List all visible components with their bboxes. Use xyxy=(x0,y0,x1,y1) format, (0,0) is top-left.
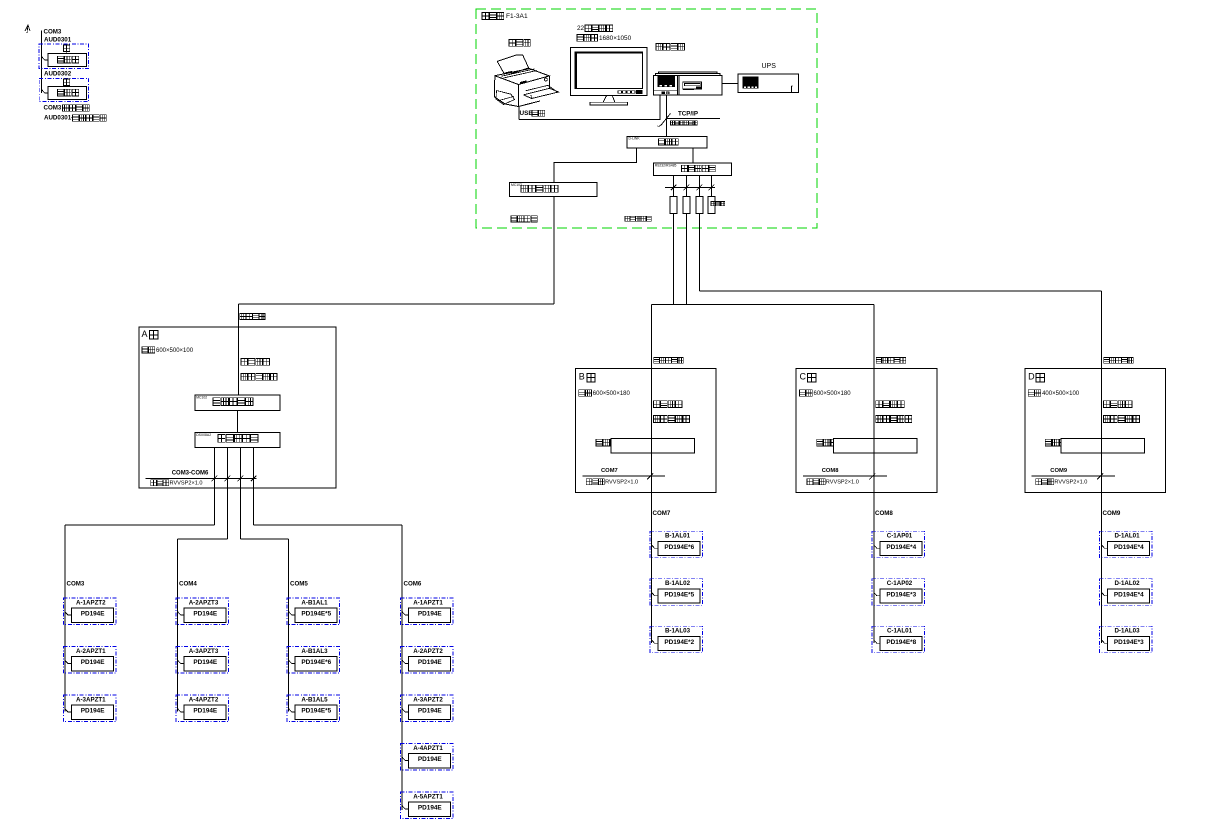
meter D-1AL01 (dash-dot boundary) xyxy=(1100,531,1153,558)
wire host to UPS xyxy=(722,82,738,84)
junction slash tick xyxy=(658,114,671,127)
legend bus wire xyxy=(41,31,43,94)
meter A-4APZT1 stub wire xyxy=(402,757,408,760)
meter A-2APZT1 stub wire xyxy=(65,660,71,663)
meter A-3APZT3 label xyxy=(189,648,219,655)
svg-text:PD194E*2: PD194E*2 xyxy=(664,639,694,646)
wire host to hub xyxy=(666,95,668,136)
building B boundary xyxy=(576,369,717,493)
label 超五类双绞线 xyxy=(671,121,698,125)
meter A-2APZT1 (dash-dot boundary) xyxy=(63,647,116,674)
svg-text:D-LINK: D-LINK xyxy=(629,137,641,141)
legend meter 1 box 电能表 xyxy=(48,53,86,66)
meter A-2APZT3 label xyxy=(189,599,219,606)
legend meter 1 tag glyph + leader xyxy=(64,45,70,53)
svg-text:COM9: COM9 xyxy=(1050,468,1068,474)
svg-text:1680×1050: 1680×1050 xyxy=(599,35,632,42)
svg-text:D-1AL02: D-1AL02 xyxy=(1114,580,1140,587)
svg-text:PD194E*5: PD194E*5 xyxy=(664,591,694,598)
svg-text:A-2APZT2: A-2APZT2 xyxy=(413,648,443,655)
meter A-2APZT2 box PD194E xyxy=(409,657,451,671)
comm manager output wires xyxy=(214,448,253,539)
wire USB horizontal xyxy=(519,95,660,119)
legend meter 2 tag glyph + leader xyxy=(64,79,70,87)
meter A-1APZT2 label xyxy=(76,599,106,606)
north tick mark xyxy=(25,25,30,33)
svg-text:COM4: COM4 xyxy=(179,580,197,587)
label C座 xyxy=(800,372,816,382)
label 分辨率1680x1050 xyxy=(577,35,632,42)
B com line xyxy=(582,473,665,479)
converter output wires xyxy=(674,176,712,197)
meter D-1AL02 label xyxy=(1114,580,1140,587)
label 打印机 xyxy=(509,40,530,47)
svg-text:AUD0302: AUD0302 xyxy=(44,70,72,77)
svg-text:RVVSP2×1.0: RVVSP2×1.0 xyxy=(1054,480,1087,486)
label COM8 (inside C) xyxy=(822,468,840,474)
meter B-1AL01 box PD194E*6 xyxy=(658,541,700,555)
wire branch to COM5 xyxy=(240,539,288,712)
meter A-1APZT2 stub wire xyxy=(65,612,71,615)
svg-text:COM3: COM3 xyxy=(44,105,62,112)
meter D-1AL03 label xyxy=(1114,628,1140,635)
label 信号线RVVSP2x1.0 (A) xyxy=(151,480,203,487)
meter C-1AP01 stub wire xyxy=(874,545,880,548)
printer icon xyxy=(495,55,559,107)
label 信号线RVVSP2x1.0 (C) xyxy=(807,479,859,486)
label COM3-COM6 xyxy=(172,471,209,477)
svg-text:PD194E: PD194E xyxy=(418,611,443,618)
svg-text:COM9: COM9 xyxy=(1103,510,1121,517)
svg-text:PD194E*4: PD194E*4 xyxy=(886,544,916,551)
wire hub to converter xyxy=(692,148,694,163)
meter A-B1AL1 box PD194E*5 xyxy=(295,608,337,622)
svg-text:C-1AL01: C-1AL01 xyxy=(887,628,913,635)
arrester 3 xyxy=(696,196,703,213)
svg-text:A-2APZT1: A-2APZT1 xyxy=(76,648,106,655)
meter A-3APZT3 (dash-dot boundary) xyxy=(176,647,229,674)
svg-text:PD194E: PD194E xyxy=(418,805,443,812)
UPS icon xyxy=(738,74,798,92)
label 规格600x500x100 xyxy=(142,347,194,354)
svg-text:COM8: COM8 xyxy=(875,510,893,517)
meter B-1AL01 label xyxy=(665,533,691,540)
label UPS xyxy=(762,63,777,70)
meter D-1AL03 stub wire xyxy=(1102,640,1108,643)
building D boundary xyxy=(1025,369,1166,493)
meter A-3APZT1 stub wire xyxy=(65,709,71,712)
svg-text:COM3: COM3 xyxy=(67,580,85,587)
meter B-1AL02 box PD194E*5 xyxy=(658,589,700,603)
svg-text:600×500×100: 600×500×100 xyxy=(156,348,194,354)
svg-text:USB: USB xyxy=(520,110,534,117)
building C boundary xyxy=(796,369,937,493)
meter A-4APZT1 (dash-dot boundary) xyxy=(401,744,454,771)
meter A-B1AL3 stub wire xyxy=(289,660,295,663)
label 串口通讯线 xyxy=(625,216,651,221)
svg-text:COM5: COM5 xyxy=(290,580,308,587)
legend label COM3 xyxy=(44,28,62,35)
legend note line 1: COM3 串口编号 xyxy=(44,105,90,112)
label 信号线RVVSP2x1.0 (B) xyxy=(586,479,638,486)
svg-text:COM3-COM6: COM3-COM6 xyxy=(172,471,209,477)
meter C-1AP01 (dash-dot boundary) xyxy=(872,531,925,558)
svg-text:PD194E*8: PD194E*8 xyxy=(886,639,916,646)
svg-text:C-1AP02: C-1AP02 xyxy=(887,580,913,587)
meter A-B1AL5 (dash-dot boundary) xyxy=(287,695,340,722)
meter C-1AL01 (dash-dot boundary) xyxy=(872,626,925,653)
label 避雷器 xyxy=(711,202,725,206)
legend meter 2 box 电能表 xyxy=(48,86,86,99)
wire C trunk xyxy=(873,369,875,644)
C com line xyxy=(803,473,887,479)
svg-text:AUD0301-: AUD0301- xyxy=(44,115,73,122)
legend meter cell 2 (dash-dot boundary) xyxy=(39,78,88,101)
meter A-1APZT1 (dash-dot boundary) xyxy=(401,598,454,625)
wire branch to COM6 xyxy=(254,525,403,810)
optical terminal box 光端盒 (B) xyxy=(596,439,695,453)
meter A-3APZT1 box PD194E xyxy=(71,705,113,719)
meter D-1AL03 (dash-dot boundary) xyxy=(1100,626,1153,653)
wire TCP/IP branch xyxy=(667,117,721,119)
svg-text:PD194E: PD194E xyxy=(193,708,218,715)
meter A-1APZT1 box PD194E xyxy=(409,608,451,622)
label 单模光缆 (room) xyxy=(511,216,537,222)
svg-text:RVVSP2×1.0: RVVSP2×1.0 xyxy=(170,481,203,487)
meter D-1AL01 stub wire xyxy=(1102,545,1108,548)
meter C-1AP02 box PD194E*3 xyxy=(880,589,922,603)
meter D-1AL02 box PD194E*4 xyxy=(1108,589,1150,603)
meter B-1AL02 (dash-dot boundary) xyxy=(650,579,703,606)
svg-text:A-B1AL1: A-B1AL1 xyxy=(301,599,328,606)
svg-text:A: A xyxy=(142,329,148,339)
svg-text:MC102: MC102 xyxy=(196,395,207,399)
meter A-1APZT2 (dash-dot boundary) xyxy=(63,598,116,625)
label COM7 (inside B) xyxy=(601,468,618,474)
wire printer vertical xyxy=(518,107,520,120)
svg-text:TCP/IP: TCP/IP xyxy=(678,111,698,118)
meter A-1APZT2 box PD194E xyxy=(71,608,113,622)
svg-text:PD194E*5: PD194E*5 xyxy=(301,708,331,715)
svg-text:B-1AL03: B-1AL03 xyxy=(665,628,691,635)
meter A-2APZT2 stub wire xyxy=(402,660,408,663)
legend meter cell 1 (dash-dot boundary) xyxy=(39,44,89,69)
svg-text:MC102: MC102 xyxy=(511,183,522,187)
svg-text:COM8: COM8 xyxy=(822,468,840,474)
optical terminal box 光端盒 (C) xyxy=(817,439,917,453)
converter 通讯转换器 xyxy=(653,163,731,175)
label 光纤收发器 (D note) xyxy=(1104,416,1140,423)
svg-text:A-3APZT2: A-3APZT2 xyxy=(413,696,443,703)
svg-text:600×500×180: 600×500×180 xyxy=(593,391,631,397)
meter A-3APZT1 (dash-dot boundary) xyxy=(63,695,116,722)
svg-text:PD194E: PD194E xyxy=(418,756,443,763)
label 至操作台 (D) xyxy=(1104,401,1133,408)
monitoring room boundary (green dashed) xyxy=(476,9,817,228)
legend note line 2: AUD0301 仪表编号 xyxy=(44,115,106,122)
svg-text:B-1AL02: B-1AL02 xyxy=(665,580,691,587)
legend stub wire 2 xyxy=(42,90,49,93)
svg-text:UPS: UPS xyxy=(762,63,777,70)
svg-text:PD194E*4: PD194E*4 xyxy=(1114,591,1144,598)
svg-text:A-1APZT1: A-1APZT1 xyxy=(413,599,443,606)
label B座 xyxy=(579,372,595,382)
label 规格400×500×100 xyxy=(1028,390,1080,397)
meter D-1AL01 label xyxy=(1114,533,1140,540)
svg-text:PD194E: PD194E xyxy=(418,708,443,715)
meter A-5APZT1 box PD194E xyxy=(409,802,451,816)
arrester 1 xyxy=(670,196,677,213)
optical terminal box 光端盒 (D) xyxy=(1045,439,1144,453)
wire trunk to building A (fiber) xyxy=(239,197,554,395)
node COM6 xyxy=(404,580,422,587)
label 监控主机 xyxy=(656,44,685,51)
wire between A boxes xyxy=(236,411,238,433)
label A座 xyxy=(142,329,158,339)
host computer icon xyxy=(653,72,722,95)
meter A-B1AL5 label xyxy=(301,696,328,703)
wire arrester1 to building B xyxy=(652,213,875,368)
label 22寸显示器 xyxy=(577,25,613,32)
meter A-3APZT3 stub wire xyxy=(178,660,184,663)
meter B-1AL03 box PD194E*2 xyxy=(658,636,700,650)
legend label AUD0301 xyxy=(44,36,72,43)
svg-text:PD194E: PD194E xyxy=(81,659,106,666)
label USB连接 xyxy=(520,110,545,117)
meter A-3APZT1 label xyxy=(76,696,106,703)
meter A-B1AL5 stub wire xyxy=(289,709,295,712)
wire B trunk xyxy=(651,369,653,644)
svg-text:A-3APZT1: A-3APZT1 xyxy=(76,696,106,703)
svg-text:A-1APZT2: A-1APZT2 xyxy=(76,599,106,606)
fiber transceiver box in A xyxy=(195,395,280,411)
node COM5 xyxy=(290,580,308,587)
wire branch to COM4 xyxy=(178,539,228,712)
svg-text:PD194E*3: PD194E*3 xyxy=(886,591,916,598)
svg-text:B: B xyxy=(579,372,585,382)
label TCP/IP xyxy=(678,111,698,118)
label 光纤收发器 (B note) xyxy=(654,416,690,423)
A cross tick line xyxy=(146,476,257,482)
meter A-3APZT2 stub wire xyxy=(402,709,408,712)
meter D-1AL02 stub wire xyxy=(1102,593,1108,596)
svg-text:C-1AP01: C-1AP01 xyxy=(887,533,913,540)
meter A-2APZT2 (dash-dot boundary) xyxy=(401,647,454,674)
svg-text:F1-3A1: F1-3A1 xyxy=(506,13,528,20)
meter D-1AL02 (dash-dot boundary) xyxy=(1100,579,1153,606)
meter A-2APZT2 label xyxy=(413,648,443,655)
meter B-1AL02 stub wire xyxy=(652,593,659,596)
svg-text:COM3: COM3 xyxy=(44,28,62,35)
meter C-1AL01 box PD194E*8 xyxy=(880,636,922,650)
svg-text:PD194E*4: PD194E*4 xyxy=(1114,544,1144,551)
svg-text:PD194E*5: PD194E*5 xyxy=(301,611,331,618)
wire branch to COM3 xyxy=(65,525,214,712)
wire cross tick line xyxy=(665,185,715,191)
meter A-3APZT3 box PD194E xyxy=(184,657,226,671)
meter A-B1AL1 (dash-dot boundary) xyxy=(287,598,340,625)
svg-text:PD194E*6: PD194E*6 xyxy=(301,659,331,666)
svg-text:D-1AL01: D-1AL01 xyxy=(1114,533,1140,540)
wire arrester2 to building C xyxy=(686,213,874,368)
building A boundary xyxy=(139,327,336,488)
svg-text:400×500×100: 400×500×100 xyxy=(1042,391,1080,397)
D com line xyxy=(1032,473,1115,479)
meter A-4APZT2 box PD194E xyxy=(184,705,226,719)
svg-text:C: C xyxy=(800,372,807,382)
fiber transceiver 光纤收发器 (room) xyxy=(510,183,598,197)
svg-text:B-1AL01: B-1AL01 xyxy=(665,533,691,540)
svg-text:22: 22 xyxy=(577,25,585,32)
label 单模光缆 (above building A) xyxy=(240,314,265,320)
label 屏蔽双绞线 (above B) xyxy=(654,358,684,364)
meter C-1AP02 (dash-dot boundary) xyxy=(872,579,925,606)
monitor icon xyxy=(570,48,647,106)
wire D trunk xyxy=(1101,369,1103,644)
wire arrester3 to building D xyxy=(699,213,1101,368)
svg-text:PD194E: PD194E xyxy=(81,708,106,715)
label 光纤收发器 (A note) xyxy=(241,373,277,380)
meter A-2APZT1 box PD194E xyxy=(71,657,113,671)
svg-text:D: D xyxy=(1028,372,1035,382)
meter C-1AL01 label xyxy=(887,628,913,635)
meter A-B1AL5 box PD194E*5 xyxy=(295,705,337,719)
meter A-B1AL3 label xyxy=(301,648,328,655)
svg-text:PD194E: PD194E xyxy=(193,611,218,618)
label 信号线RVVSP2x1.0 (D) xyxy=(1036,479,1088,486)
node COM7 xyxy=(653,510,671,517)
meter A-3APZT2 (dash-dot boundary) xyxy=(401,695,454,722)
svg-text:PD194E: PD194E xyxy=(81,611,106,618)
meter A-2APZT1 label xyxy=(76,648,106,655)
comm manager box 通讯管理机 xyxy=(195,433,280,448)
svg-text:A-2APZT3: A-2APZT3 xyxy=(189,599,219,606)
svg-text:RVVSP2×1.0: RVVSP2×1.0 xyxy=(826,480,859,486)
meter D-1AL03 box PD194E*3 xyxy=(1108,636,1150,650)
meter A-1APZT1 stub wire xyxy=(402,612,408,615)
meter A-4APZT1 box PD194E xyxy=(409,754,451,768)
svg-text:PD194E*3: PD194E*3 xyxy=(1114,639,1144,646)
meter A-B1AL3 box PD194E*6 xyxy=(295,657,337,671)
room title 监控室 F1-3A1 xyxy=(482,13,528,20)
label 规格600×500×180 xyxy=(800,390,852,397)
svg-text:A-B1AL3: A-B1AL3 xyxy=(301,648,328,655)
meter B-1AL03 stub wire xyxy=(652,640,659,643)
meter A-5APZT1 label xyxy=(413,793,443,800)
label 规格600×500×180 xyxy=(579,390,631,397)
meter B-1AL03 (dash-dot boundary) xyxy=(650,626,703,653)
label 屏蔽双绞线 (above D) xyxy=(1104,358,1134,364)
meter A-4APZT1 label xyxy=(413,745,443,752)
meter A-3APZT2 label xyxy=(413,696,443,703)
label D座 xyxy=(1028,372,1044,382)
svg-text:DSX08A2: DSX08A2 xyxy=(196,433,211,437)
meter B-1AL03 label xyxy=(665,628,691,635)
meter C-1AP02 stub wire xyxy=(874,593,880,596)
svg-text:RVVSP2×1.0: RVVSP2×1.0 xyxy=(605,480,638,486)
svg-text:A-5APZT1: A-5APZT1 xyxy=(413,793,443,800)
svg-text:A-3APZT3: A-3APZT3 xyxy=(189,648,219,655)
meter A-5APZT1 stub wire xyxy=(402,806,408,809)
legend stub wire 1 xyxy=(42,57,49,60)
meter A-B1AL1 stub wire xyxy=(289,612,295,615)
meter B-1AL01 stub wire xyxy=(652,545,659,548)
svg-text:RS232/RS485: RS232/RS485 xyxy=(655,164,677,168)
node COM3 xyxy=(67,580,85,587)
label 至操作台 (C) xyxy=(876,401,905,408)
svg-text:COM6: COM6 xyxy=(404,580,422,587)
hub 集线器 xyxy=(627,136,707,148)
label 至操作台 (B) xyxy=(654,401,683,408)
node COM8 xyxy=(875,510,893,517)
meter A-1APZT1 label xyxy=(413,599,443,606)
svg-text:COM7: COM7 xyxy=(601,468,618,474)
svg-text:A-4APZT2: A-4APZT2 xyxy=(189,696,219,703)
meter B-1AL02 label xyxy=(665,580,691,587)
meter C-1AP01 label xyxy=(887,533,913,540)
meter A-2APZT3 box PD194E xyxy=(184,608,226,622)
meter C-1AP02 label xyxy=(887,580,913,587)
label 光纤收发器 (C note) xyxy=(876,416,912,423)
svg-text:600×500×180: 600×500×180 xyxy=(814,391,852,397)
meter A-4APZT2 label xyxy=(189,696,219,703)
arrester 4 xyxy=(708,196,715,213)
meter C-1AL01 stub wire xyxy=(874,640,880,643)
svg-text:AUD0301: AUD0301 xyxy=(44,36,72,43)
svg-text:A-4APZT1: A-4APZT1 xyxy=(413,745,443,752)
meter D-1AL01 box PD194E*4 xyxy=(1108,541,1150,555)
meter A-2APZT3 stub wire xyxy=(178,612,184,615)
legend label AUD0302 xyxy=(44,70,72,77)
meter A-4APZT2 (dash-dot boundary) xyxy=(176,695,229,722)
arrester 2 xyxy=(683,196,690,213)
meter A-2APZT3 (dash-dot boundary) xyxy=(176,598,229,625)
node COM9 xyxy=(1103,510,1121,517)
meter A-3APZT2 box PD194E xyxy=(409,705,451,719)
svg-text:A-B1AL5: A-B1AL5 xyxy=(301,696,328,703)
meter A-4APZT2 stub wire xyxy=(178,709,184,712)
node COM4 xyxy=(179,580,197,587)
meter B-1AL01 (dash-dot boundary) xyxy=(650,531,703,558)
meter A-5APZT1 (dash-dot boundary) xyxy=(401,792,454,819)
label 至操作台 (A) xyxy=(241,358,270,365)
label COM9 (inside D) xyxy=(1050,468,1068,474)
meter C-1AP01 box PD194E*4 xyxy=(880,541,922,555)
svg-text:PD194E: PD194E xyxy=(193,659,218,666)
svg-text:PD194E: PD194E xyxy=(418,659,443,666)
svg-text:COM7: COM7 xyxy=(653,510,671,517)
wire hub to fiber transceiver xyxy=(554,148,637,183)
label 屏蔽双绞线 (above C) xyxy=(876,358,906,364)
meter A-B1AL1 label xyxy=(301,599,328,606)
svg-text:D-1AL03: D-1AL03 xyxy=(1114,628,1140,635)
meter A-B1AL3 (dash-dot boundary) xyxy=(287,647,340,674)
svg-text:PD194E*6: PD194E*6 xyxy=(664,544,694,551)
